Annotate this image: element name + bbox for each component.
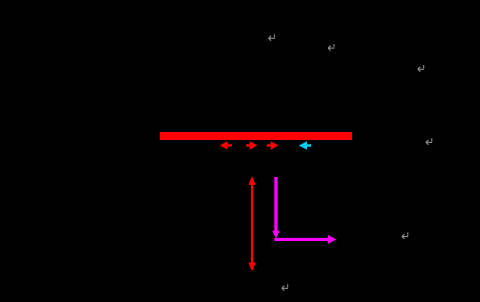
small red arrow pointing right under bar (first) [246,141,257,150]
gray return mark 6 (bottom) [282,284,288,291]
gray return mark 1 (top) [269,34,275,41]
small red arrow pointing right under bar (second) [267,141,279,150]
gray return mark 2 [328,44,334,51]
gray return mark 4 (right of bar) [426,138,432,145]
red bar (plate) [160,132,352,140]
small cyan arrow pointing left under bar [299,141,311,150]
gray return mark 5 (lower right) [402,232,408,239]
vertical magenta arrow pointing down [272,177,280,238]
small red arrow pointing left under bar [220,141,232,150]
gray return mark 3 (upper right) [418,65,424,72]
horizontal magenta arrow pointing right [274,235,336,244]
vertical red double-headed arrow [248,176,255,272]
